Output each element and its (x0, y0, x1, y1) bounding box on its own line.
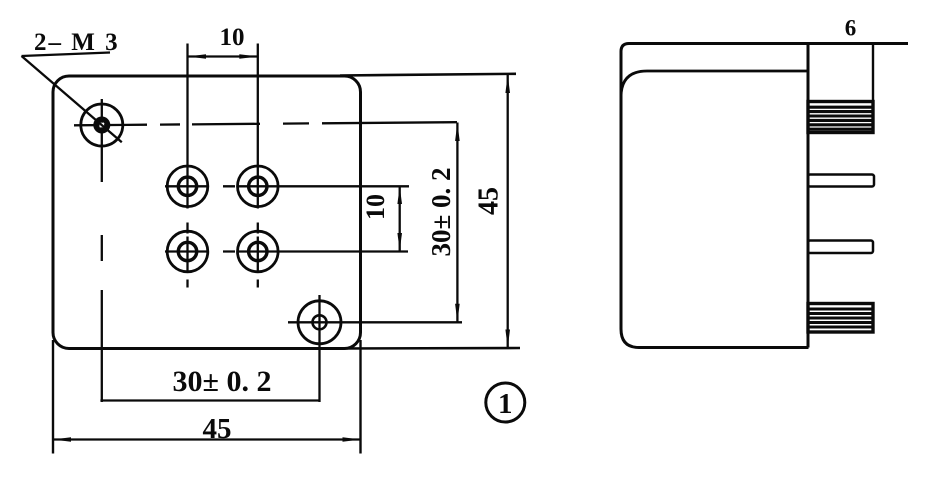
svg-text:30± 0. 2: 30± 0. 2 (426, 167, 456, 256)
svg-text:30± 0. 2: 30± 0. 2 (173, 365, 272, 398)
svg-text:6: 6 (845, 16, 857, 41)
svg-text:10: 10 (361, 194, 390, 220)
svg-text:1: 1 (498, 388, 513, 420)
svg-text:10: 10 (220, 24, 245, 51)
svg-text:2– M 3: 2– M 3 (34, 29, 120, 56)
svg-text:45: 45 (203, 413, 232, 445)
svg-text:45: 45 (474, 187, 505, 215)
